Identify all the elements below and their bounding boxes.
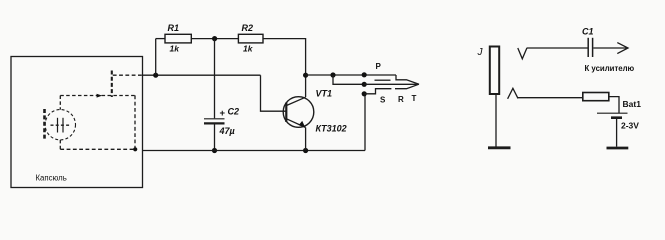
capacitor C1 plate left: [587, 38, 589, 57]
dashed drain lead to box edge: [113, 74, 143, 76]
svg-text:Капсюль: Капсюль: [36, 174, 67, 183]
svg-text:Bat1: Bat1: [623, 99, 642, 109]
plug tip conductor center line: [364, 83, 418, 85]
plug ring bottom outline: [395, 84, 419, 89]
capsule body circle: [45, 110, 75, 140]
svg-text:47µ: 47µ: [219, 126, 235, 136]
wire capsule output: [143, 74, 261, 76]
junction R1 tap: [153, 73, 158, 78]
svg-text:J: J: [477, 47, 484, 58]
wire C1 to amplifier: [593, 47, 627, 49]
svg-text:C1: C1: [582, 26, 594, 36]
resistor R2: [238, 34, 263, 43]
wire jack ground stem: [495, 95, 497, 147]
svg-text:R1: R1: [168, 23, 180, 33]
internal junction dot: [133, 147, 137, 151]
svg-text:R: R: [398, 95, 404, 104]
svg-text:1k: 1k: [243, 43, 254, 53]
dashed riser capsule top to gate: [59, 96, 61, 110]
junction C2 rail: [212, 148, 217, 153]
svg-text:R2: R2: [242, 23, 254, 33]
svg-text:+: +: [220, 108, 226, 119]
resistor R1: [165, 34, 191, 43]
svg-text:К усилителю: К усилителю: [585, 64, 635, 73]
FET gate arrow: [97, 94, 103, 98]
wire R1 left riser: [155, 39, 157, 76]
capsule center dashed lead: [51, 124, 71, 126]
jack ring contact: [508, 88, 518, 99]
wire collector: [305, 75, 307, 97]
transistor VT1: [283, 97, 314, 128]
dashed gate line: [60, 95, 135, 97]
svg-text:S: S: [380, 95, 386, 104]
wire R2 right to collector node: [263, 39, 306, 76]
wire resistor to battery: [609, 97, 619, 113]
svg-text:VT1: VT1: [316, 88, 333, 98]
capsule plate left: [57, 118, 59, 133]
wire base hook: [261, 75, 287, 111]
wire tip feed jog: [333, 75, 364, 84]
plug sleeve bottom path: [364, 89, 391, 94]
capacitor C2 plate minus: [204, 122, 225, 124]
ground (jack): [488, 146, 511, 149]
jack tip contact: [518, 48, 527, 59]
capsule membrane bar: [43, 109, 46, 141]
wire ring contact to resistor: [518, 97, 583, 99]
junction plug ring terminal: [362, 72, 367, 77]
battery Bat1 plate minus: [611, 116, 622, 119]
ground (battery): [607, 147, 629, 150]
wire sleeve riser: [364, 94, 366, 151]
dashed bottom lead horizontal: [60, 148, 135, 150]
capacitor C1 plate right: [592, 38, 594, 57]
capacitor C2 plate plus: [204, 118, 225, 120]
wire R1 left lead: [156, 38, 165, 40]
svg-text:C2: C2: [228, 107, 240, 117]
series resistor: [583, 93, 609, 101]
wire emitter: [305, 128, 307, 151]
svg-text:КТ3102: КТ3102: [316, 124, 347, 134]
battery Bat1 plate plus: [597, 112, 628, 114]
wire to C1: [527, 47, 588, 49]
svg-text:1k: 1k: [170, 43, 181, 53]
junction plug tip terminal: [362, 82, 367, 87]
junction tip tap: [330, 72, 335, 77]
capsule plate right: [62, 118, 64, 133]
svg-text:2-3V: 2-3V: [621, 121, 639, 131]
plug sleeve top edge: [375, 79, 391, 81]
plug ring top outline: [396, 75, 419, 84]
wire C2 to rail: [214, 125, 216, 151]
arrow to amplifier: [617, 43, 628, 54]
junction R1/R2/C2: [212, 36, 217, 41]
jack socket J: [490, 47, 499, 95]
ground rail wire: [143, 150, 366, 152]
FET channel bar: [111, 71, 113, 98]
dashed capsule bottom lead: [59, 140, 61, 149]
junction collector node: [303, 73, 308, 78]
wire C2 riser: [214, 39, 216, 119]
wire R1-R2: [191, 38, 238, 40]
svg-text:P: P: [376, 62, 382, 71]
junction emitter rail: [303, 148, 308, 153]
dashed source lead down: [134, 95, 136, 149]
wire battery to ground: [616, 119, 618, 147]
junction plug sleeve terminal: [362, 91, 367, 96]
svg-text:T: T: [412, 94, 417, 103]
wire collector node to plug ring: [306, 74, 396, 76]
capsule enclosure box: [11, 57, 143, 188]
